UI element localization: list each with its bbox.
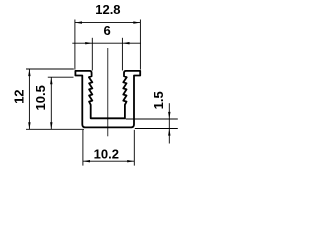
dimension 12.8 (top overall width) bbox=[75, 20, 140, 70]
svg-text:12.8: 12.8 bbox=[95, 2, 120, 17]
dimension 10.2 (bottom width) bbox=[83, 130, 134, 166]
svg-text:1.5: 1.5 bbox=[151, 91, 166, 109]
svg-text:6: 6 bbox=[103, 23, 110, 38]
svg-text:10.2: 10.2 bbox=[94, 147, 119, 162]
svg-text:12: 12 bbox=[12, 89, 27, 103]
svg-text:10.5: 10.5 bbox=[33, 85, 48, 110]
dimension 1.5 (bottom wall thickness, right) bbox=[126, 103, 178, 143]
dimension 10.5 (inner depth, left) bbox=[48, 77, 74, 129]
dimension 6 (channel opening width) bbox=[72, 38, 141, 71]
profile outline (serrated U-channel cross-section) bbox=[75, 71, 140, 128]
centerline bbox=[107, 48, 109, 136]
dimension 12 (overall height, left) bbox=[26, 69, 84, 129]
